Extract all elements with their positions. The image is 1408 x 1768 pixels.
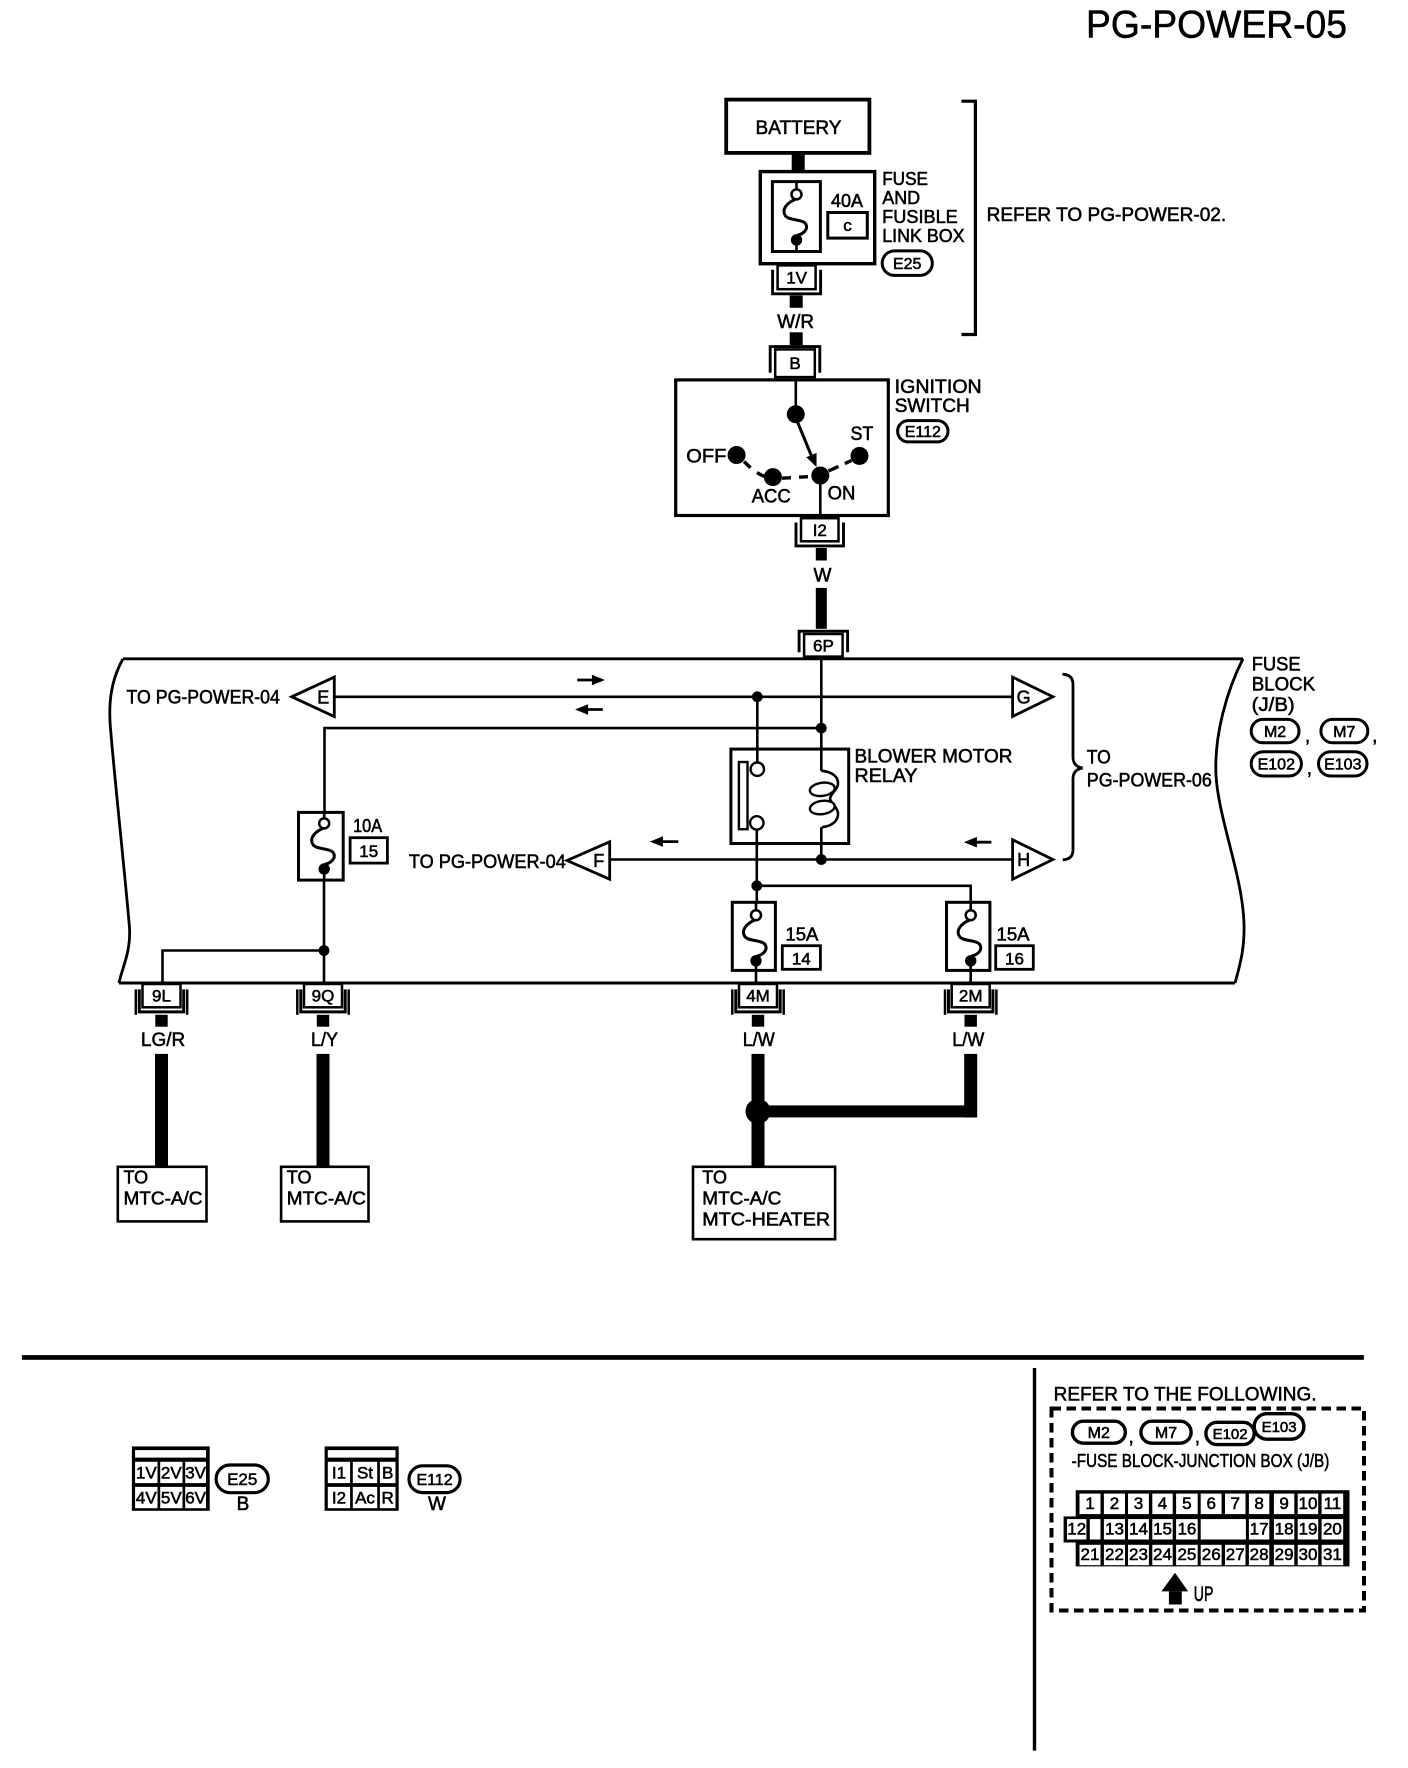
- connector E103 oval (legend): [1254, 1414, 1304, 1440]
- node ACC: [764, 468, 782, 486]
- svg-text:BLOCK: BLOCK: [1252, 675, 1316, 696]
- connector M7 oval (legend): [1141, 1421, 1191, 1443]
- svg-text:B: B: [382, 1464, 393, 1483]
- svg-text:B: B: [237, 1494, 250, 1515]
- fuse block band outline: [110, 659, 1244, 983]
- svg-text:30: 30: [1299, 1545, 1318, 1564]
- connector E25 oval (legend): [216, 1465, 268, 1493]
- line F to H: [610, 858, 1013, 861]
- svg-text:RELAY: RELAY: [855, 766, 918, 787]
- svg-text:I2: I2: [332, 1489, 346, 1508]
- svg-text:B: B: [789, 354, 800, 373]
- svg-text:SWITCH: SWITCH: [895, 396, 970, 417]
- wire 4M down (thick): [752, 1054, 765, 1167]
- svg-text:E103: E103: [1324, 757, 1361, 774]
- svg-text:M2: M2: [1088, 1425, 1110, 1442]
- svg-text:L/Y: L/Y: [311, 1030, 338, 1051]
- dashed detent arcs: [744, 462, 766, 477]
- connector E102 oval: [1251, 752, 1301, 776]
- svg-text:21: 21: [1081, 1545, 1100, 1564]
- connector E103 oval: [1319, 752, 1368, 776]
- page arrow F: [567, 842, 610, 879]
- thick junction 4M/2M: [758, 1105, 977, 1117]
- svg-text:H: H: [1017, 850, 1030, 870]
- svg-text:W: W: [814, 566, 832, 587]
- svg-text:6P: 6P: [813, 636, 834, 655]
- svg-text:5: 5: [1182, 1494, 1191, 1513]
- connector E112 oval: [898, 421, 948, 442]
- junction on E-G line: [752, 691, 763, 702]
- connector terminal 9L: [136, 984, 187, 1027]
- node OFF: [728, 446, 746, 464]
- svg-text:St: St: [357, 1464, 373, 1483]
- svg-text:L/W: L/W: [952, 1030, 984, 1051]
- relay contact rings: [751, 763, 764, 776]
- svg-text:2: 2: [1110, 1494, 1119, 1513]
- svg-text:MTC-A/C: MTC-A/C: [702, 1189, 781, 1209]
- svg-text:29: 29: [1275, 1545, 1294, 1564]
- svg-text:E: E: [317, 687, 329, 707]
- svg-text:12: 12: [1067, 1519, 1086, 1538]
- svg-text:OFF: OFF: [686, 447, 726, 468]
- fuse 10A #15: [299, 812, 344, 880]
- svg-text:c: c: [843, 216, 852, 235]
- wire B to common contact: [794, 380, 797, 414]
- svg-text:TO PG-POWER-04: TO PG-POWER-04: [127, 687, 281, 708]
- svg-text:4: 4: [1158, 1494, 1167, 1513]
- box TO MTC-A/C (9Q): [281, 1167, 368, 1222]
- relay movable contact bar: [739, 762, 748, 829]
- ignition switch box: [676, 380, 889, 516]
- svg-text:11: 11: [1324, 1494, 1342, 1513]
- fuse number box 16: [996, 946, 1034, 970]
- svg-text:2V: 2V: [161, 1464, 182, 1483]
- svg-text:PG-POWER-05: PG-POWER-05: [1086, 4, 1347, 47]
- switch arm arrow: [798, 422, 812, 456]
- connector terminal 2M: [945, 984, 996, 1027]
- svg-text:23: 23: [1129, 1545, 1148, 1564]
- footer vertical divider: [1033, 1368, 1036, 1751]
- svg-text:28: 28: [1250, 1545, 1269, 1564]
- svg-text:25: 25: [1177, 1545, 1196, 1564]
- svg-text:UP: UP: [1194, 1583, 1214, 1606]
- svg-text:AND: AND: [882, 188, 920, 208]
- svg-text:BATTERY: BATTERY: [756, 118, 842, 139]
- svg-text:9L: 9L: [152, 987, 171, 1006]
- svg-text:15A: 15A: [997, 925, 1030, 945]
- svg-text:15A: 15A: [785, 925, 818, 945]
- svg-text:19: 19: [1299, 1519, 1318, 1538]
- svg-text:-FUSE BLOCK-JUNCTION BOX (J/B): -FUSE BLOCK-JUNCTION BOX (J/B): [1072, 1451, 1330, 1471]
- fuse id box c: [828, 213, 868, 239]
- svg-text:14: 14: [792, 949, 811, 968]
- svg-text:E102: E102: [1213, 1426, 1248, 1443]
- connector E112 oval (legend): [409, 1466, 460, 1493]
- page arrow H: [1013, 840, 1053, 879]
- svg-text:TO: TO: [287, 1168, 312, 1188]
- label FUSE BLOCK (J/B): [1252, 655, 1316, 717]
- page arrow G: [1013, 677, 1053, 716]
- svg-text:4V: 4V: [136, 1489, 157, 1508]
- flow arrow left (H): [975, 841, 992, 844]
- flow arrow left: [586, 708, 603, 711]
- wire branch to fuse 16: [757, 886, 971, 903]
- svg-text:10A: 10A: [353, 816, 382, 836]
- connector pin 6P: [799, 631, 848, 656]
- connector M2 oval: [1251, 719, 1299, 742]
- svg-text:F: F: [593, 851, 604, 871]
- fuse number box 15: [350, 838, 387, 863]
- svg-text:TO: TO: [124, 1168, 149, 1188]
- svg-text:FUSE: FUSE: [1252, 655, 1301, 676]
- svg-text:TO: TO: [702, 1168, 727, 1188]
- svg-text:3: 3: [1134, 1494, 1143, 1513]
- svg-text:17: 17: [1250, 1519, 1269, 1538]
- relay coil: [809, 728, 838, 827]
- wire branch to 9L: [163, 951, 325, 984]
- wire fuse 16 to 2M: [969, 970, 972, 983]
- svg-text:TO: TO: [1087, 748, 1111, 769]
- svg-text:LINK BOX: LINK BOX: [882, 226, 964, 246]
- wire I2 to 6P (thick) W: [816, 548, 827, 561]
- wire fuse 14 to 4M: [755, 970, 758, 983]
- svg-text:(J/B): (J/B): [1252, 695, 1295, 716]
- svg-text:1V: 1V: [136, 1464, 157, 1483]
- battery B1: [726, 100, 869, 153]
- svg-text:6V: 6V: [185, 1489, 206, 1508]
- svg-text:E25: E25: [227, 1470, 257, 1489]
- svg-text:,: ,: [1129, 1427, 1134, 1448]
- svg-text:6: 6: [1206, 1494, 1215, 1513]
- svg-text:PG-POWER-06: PG-POWER-06: [1087, 770, 1212, 791]
- svg-text:IGNITION: IGNITION: [895, 377, 982, 398]
- ignition switch common node: [787, 405, 805, 423]
- svg-text:26: 26: [1202, 1545, 1221, 1564]
- svg-text:ON: ON: [828, 484, 856, 505]
- node ON: [811, 467, 829, 485]
- wire 2M down (thick): [964, 1054, 977, 1118]
- fusible link 40A "c" element: [772, 182, 820, 252]
- svg-text:20: 20: [1323, 1519, 1342, 1538]
- svg-text:E112: E112: [417, 1472, 453, 1489]
- svg-text:40A: 40A: [831, 191, 863, 211]
- svg-text:,: ,: [1305, 726, 1310, 747]
- fuse 15A #16: [947, 902, 990, 970]
- box TO MTC-A/C MTC-HEATER: [693, 1167, 835, 1239]
- wire 1V to B (thick) W/R: [790, 296, 803, 308]
- svg-text:M2: M2: [1264, 724, 1286, 741]
- svg-text:MTC-A/C: MTC-A/C: [124, 1189, 203, 1209]
- svg-text:8: 8: [1254, 1494, 1263, 1513]
- svg-text:FUSIBLE: FUSIBLE: [882, 207, 958, 227]
- svg-text:,: ,: [1307, 759, 1312, 780]
- svg-text:22: 22: [1105, 1545, 1124, 1564]
- svg-text:E112: E112: [905, 424, 941, 441]
- svg-text:W: W: [428, 1494, 446, 1515]
- svg-text:1: 1: [1085, 1494, 1094, 1513]
- connector M7 oval: [1321, 719, 1368, 742]
- svg-text:,: ,: [1372, 726, 1377, 747]
- svg-text:15: 15: [1153, 1519, 1172, 1538]
- connector M2 oval (legend): [1072, 1421, 1125, 1443]
- wire ON to I2: [819, 476, 822, 519]
- UP arrow: [1161, 1573, 1188, 1592]
- wire 9Q to MTC-A/C (thick): [317, 1054, 330, 1167]
- svg-text:2M: 2M: [959, 987, 983, 1006]
- fuse and fusible link box E25 outline: [760, 172, 874, 264]
- connector terminal 4M: [732, 984, 783, 1027]
- svg-text:REFER TO THE FOLLOWING.: REFER TO THE FOLLOWING.: [1054, 1383, 1317, 1405]
- connector E25 oval: [882, 251, 932, 276]
- wire coil down to F-H line: [820, 827, 823, 859]
- fuse block face grid: [1064, 1490, 1350, 1566]
- svg-text:ACC: ACC: [752, 487, 791, 508]
- fuse 15A #14: [732, 902, 775, 970]
- bracket refer note: [962, 101, 976, 334]
- connector pin B: [770, 347, 820, 378]
- connector face E112 grid: [325, 1446, 399, 1510]
- svg-text:9: 9: [1279, 1494, 1288, 1513]
- line E to G: [334, 695, 1012, 698]
- svg-text:27: 27: [1226, 1545, 1245, 1564]
- fuse number box 14: [782, 946, 820, 970]
- blower motor relay box: [731, 749, 849, 843]
- svg-text:M7: M7: [1333, 724, 1355, 741]
- box TO MTC-A/C (9L): [118, 1167, 207, 1222]
- svg-text:M7: M7: [1155, 1425, 1177, 1442]
- svg-text:E103: E103: [1262, 1419, 1297, 1436]
- svg-text:1V: 1V: [786, 268, 807, 287]
- svg-text:16: 16: [1177, 1519, 1196, 1538]
- svg-text:Ac: Ac: [355, 1489, 375, 1508]
- svg-text:14: 14: [1129, 1519, 1148, 1538]
- svg-text:3V: 3V: [185, 1464, 206, 1483]
- svg-text:BLOWER MOTOR: BLOWER MOTOR: [855, 747, 1013, 768]
- wire relay contact down: [755, 830, 758, 903]
- svg-text:ST: ST: [851, 424, 874, 445]
- junction to 15A fuses: [751, 880, 762, 891]
- connector pin I2: [796, 518, 844, 546]
- svg-text:REFER TO PG-POWER-02.: REFER TO PG-POWER-02.: [987, 205, 1227, 226]
- svg-text:L/W: L/W: [743, 1030, 775, 1051]
- wire 10A fuse down: [323, 880, 326, 983]
- page arrow E: [292, 677, 335, 716]
- svg-text:E102: E102: [1258, 757, 1295, 774]
- svg-text:13: 13: [1105, 1519, 1124, 1538]
- label FUSE AND FUSIBLE LINK BOX: [882, 169, 964, 246]
- flow arrow left (F line): [661, 840, 678, 843]
- svg-text:7: 7: [1230, 1494, 1239, 1513]
- svg-text:,: ,: [1195, 1427, 1200, 1448]
- svg-text:10: 10: [1299, 1494, 1318, 1513]
- svg-text:LG/R: LG/R: [141, 1030, 185, 1051]
- dashed reference box: [1052, 1409, 1365, 1611]
- svg-text:W/R: W/R: [777, 312, 814, 333]
- svg-text:9Q: 9Q: [312, 987, 335, 1006]
- footer separator line: [22, 1355, 1364, 1360]
- junction 10A branch: [319, 945, 330, 956]
- svg-text:E25: E25: [893, 256, 922, 273]
- junction coil/F-H line: [816, 854, 827, 865]
- connector terminal 9Q: [297, 984, 348, 1027]
- svg-text:MTC-HEATER: MTC-HEATER: [702, 1210, 830, 1230]
- brace TO PG-POWER-06: [1062, 674, 1082, 860]
- svg-text:16: 16: [1005, 949, 1024, 968]
- svg-text:5V: 5V: [161, 1489, 182, 1508]
- wire 6P down through band: [820, 659, 823, 728]
- wire battery to fuse box (thick): [792, 153, 805, 172]
- connector face E25 grid: [132, 1446, 210, 1510]
- svg-text:TO PG-POWER-04: TO PG-POWER-04: [409, 852, 566, 873]
- svg-text:I1: I1: [332, 1464, 346, 1483]
- svg-text:FUSE: FUSE: [882, 169, 928, 189]
- svg-text:15: 15: [359, 842, 378, 861]
- svg-text:18: 18: [1275, 1519, 1294, 1538]
- node ST: [851, 447, 869, 465]
- flow arrow right: [577, 679, 594, 682]
- svg-text:R: R: [382, 1489, 394, 1508]
- svg-text:31: 31: [1323, 1545, 1342, 1564]
- svg-text:4M: 4M: [746, 987, 770, 1006]
- svg-text:I2: I2: [813, 521, 827, 540]
- junction 6P wire / branch: [816, 723, 827, 734]
- svg-text:24: 24: [1153, 1545, 1172, 1564]
- connector pin 1V: [773, 265, 821, 293]
- svg-text:MTC-A/C: MTC-A/C: [287, 1189, 366, 1209]
- svg-text:G: G: [1017, 687, 1031, 707]
- wire 9L to MTC-A/C (thick): [155, 1054, 168, 1167]
- wire E-G line to relay contact: [756, 697, 759, 763]
- connector E102 oval (legend): [1206, 1422, 1254, 1444]
- wire branch to 10A fuse: [325, 728, 822, 812]
